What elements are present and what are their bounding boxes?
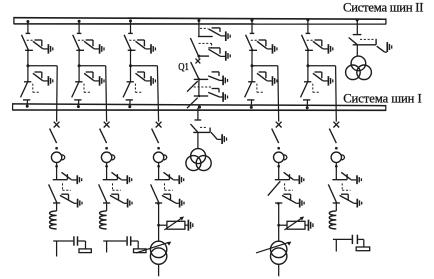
wire xyxy=(56,163,58,180)
node bay 1 bus II connection xyxy=(26,20,29,23)
earthing switch of bay 5 lower disconnector xyxy=(313,72,333,86)
wire xyxy=(278,163,280,180)
node bay 4 bus II connection xyxy=(251,19,254,22)
wire xyxy=(307,20,309,34)
wire xyxy=(158,163,160,180)
wire xyxy=(130,50,132,65)
earthing switch of bay 1 lower disconnector xyxy=(33,72,53,86)
disconnector of bus I voltage transformer xyxy=(191,120,227,144)
wire branch to feeder xyxy=(252,65,278,67)
circuit breaker Q1 xyxy=(191,59,201,79)
wire xyxy=(27,50,29,65)
disconnector bay 5 upper (bus II side) xyxy=(302,33,314,51)
coupling capacitor and earth of line feeder W1 xyxy=(53,236,91,252)
circuit breaker of line feeder W2 xyxy=(100,122,110,143)
line disconnector of transformer feeder T4 with two earthing switches xyxy=(268,172,304,207)
current transformer of line feeder W1 xyxy=(51,147,64,168)
disconnector bay 1 lower (bus I side) xyxy=(21,82,40,100)
svg-text:Q1: Q1 xyxy=(178,62,189,73)
wire branch to feeder xyxy=(131,65,158,67)
disconnector QS coupler bus II side xyxy=(190,37,212,58)
wire feeder drop transformer feeder T3 xyxy=(157,66,158,122)
wire feeder drop line feeder W1 xyxy=(56,66,59,122)
node bus coupler connection to bus II xyxy=(197,19,200,22)
earthing switch of bay 1 upper disconnector xyxy=(33,40,53,54)
wire xyxy=(356,45,358,56)
wire xyxy=(56,203,58,211)
earthing switch coupler top xyxy=(200,28,230,41)
node bay 1 bus I connection xyxy=(26,105,29,108)
disconnector bay 1 upper (bus II side) xyxy=(22,33,34,51)
wire xyxy=(198,56,200,59)
wire line continues xyxy=(56,241,58,257)
wire line continues xyxy=(335,239,337,251)
node bay 3 bus I connection xyxy=(128,105,131,108)
wire xyxy=(129,100,131,107)
wire branch to feeder xyxy=(308,65,336,67)
wire xyxy=(198,21,200,37)
node bay 4 bus I connection xyxy=(250,106,253,109)
transformer transformer feeder T4 with on-load tap changer xyxy=(256,241,291,264)
current transformer of transformer feeder T4 xyxy=(274,147,287,168)
wire xyxy=(158,225,160,241)
wire branch to feeder xyxy=(79,65,106,67)
wire xyxy=(26,100,28,106)
wire VT bus I drop xyxy=(197,108,199,120)
disconnector bay 2 lower (bus I side) xyxy=(72,82,91,100)
node bay 5 bus I connection xyxy=(306,106,309,109)
node coupler bus I connection xyxy=(198,106,201,109)
wire xyxy=(278,203,280,225)
wire xyxy=(335,163,337,180)
wire xyxy=(198,79,200,96)
earthing switch of bay 5 upper disconnector xyxy=(313,40,333,54)
wire xyxy=(251,50,253,65)
current transformer of line feeder W5 xyxy=(331,147,344,168)
HF line trap (reactor coil) of line feeder W2 xyxy=(100,211,107,229)
earthing switch coupler second xyxy=(208,48,230,61)
coupling capacitor and earth of line feeder W2 xyxy=(103,236,146,252)
node bay 2 bus II connection xyxy=(78,20,81,23)
coupling capacitor and earth of line feeder W5 xyxy=(333,235,370,251)
earthing switch of bay 4 upper disconnector xyxy=(257,40,277,54)
wire feeder drop line feeder W2 xyxy=(105,66,108,122)
wire xyxy=(158,203,160,225)
wire xyxy=(106,163,108,180)
wire xyxy=(251,20,253,33)
circuit breaker of line feeder W1 xyxy=(50,122,60,143)
node bay 2 junction xyxy=(78,64,81,67)
wire xyxy=(197,132,199,148)
wire branch to feeder xyxy=(28,65,57,67)
wire feeder drop transformer feeder T4 xyxy=(277,66,280,122)
disconnector bay 5 lower (bus I side) xyxy=(301,82,320,100)
svg-text:Система шин II: Система шин II xyxy=(343,1,424,15)
circuit breaker of transformer feeder T4 xyxy=(272,122,282,143)
disconnector bay 3 lower (bus I side) xyxy=(123,82,142,100)
line disconnector of transformer feeder T3 with two earthing switches xyxy=(151,172,184,207)
wire xyxy=(356,20,358,35)
svg-text:Система шин I: Система шин I xyxy=(343,92,422,106)
HF line trap (reactor coil) of line feeder W1 xyxy=(50,211,57,229)
line disconnector of line feeder W2 with two earthing switches xyxy=(99,172,132,207)
wire xyxy=(27,66,29,82)
disconnector bay 3 upper (bus II side) xyxy=(124,33,136,51)
disconnector bay 4 upper (bus II side) xyxy=(246,33,258,51)
disconnector QS coupler bus I side xyxy=(187,78,213,108)
disconnector of bus II voltage transformer xyxy=(349,35,392,53)
current transformer of transformer feeder T3 xyxy=(153,147,166,168)
node bay 2 bus I connection xyxy=(77,105,80,108)
wire xyxy=(250,100,252,108)
node bay 4 junction xyxy=(251,64,254,67)
circuit breaker of transformer feeder T3 xyxy=(152,122,162,143)
node bay 5 junction xyxy=(306,64,309,67)
wire xyxy=(106,203,108,211)
node bay 3 bus II connection xyxy=(129,19,132,22)
wire xyxy=(78,50,80,65)
earthing switch of bay 3 lower disconnector xyxy=(136,72,156,86)
earthing switch of bay 2 lower disconnector xyxy=(84,72,104,86)
wire xyxy=(307,50,309,65)
earthing switch coupler fourth xyxy=(208,89,227,102)
node bay 5 bus II connection xyxy=(306,18,309,21)
wire feeder drop line feeder W5 xyxy=(335,66,338,122)
wire xyxy=(335,203,337,211)
wire xyxy=(306,100,308,108)
disconnector bay 2 upper (bus II side) xyxy=(73,33,85,51)
voltage transformer TV2 (bus II) xyxy=(346,56,372,79)
earthing switch of bay 2 upper disconnector xyxy=(84,40,104,54)
wire xyxy=(77,100,79,107)
surge arrester (varistor) of transformer feeder T3 xyxy=(157,217,193,231)
transformer transformer feeder T3 with on-load tap changer xyxy=(136,241,171,264)
disconnector bay 4 lower (bus I side) xyxy=(245,82,264,100)
node bay 3 junction xyxy=(129,64,132,67)
wire line continues xyxy=(106,241,108,253)
wire xyxy=(307,66,309,82)
line disconnector of line feeder W5 with two earthing switches xyxy=(328,172,361,207)
wire xyxy=(78,66,80,82)
earthing switch of bay 4 lower disconnector xyxy=(257,72,277,86)
node VT bus II connection xyxy=(356,19,359,22)
HF line trap (reactor coil) of line feeder W5 xyxy=(329,211,336,229)
line disconnector of line feeder W1 with two earthing switches xyxy=(49,172,82,207)
wire xyxy=(130,66,132,82)
earthing switch of bay 3 upper disconnector xyxy=(136,40,156,54)
surge arrester (varistor) of transformer feeder T4 xyxy=(277,217,313,231)
node bay 1 junction xyxy=(26,64,29,67)
wire xyxy=(130,21,132,34)
wire xyxy=(27,22,29,34)
busbar system I xyxy=(13,104,386,106)
earthing switch coupler third xyxy=(208,72,227,85)
wire xyxy=(78,21,80,33)
wire xyxy=(251,66,253,82)
circuit breaker of line feeder W5 xyxy=(329,122,339,143)
current transformer of line feeder W2 xyxy=(101,147,114,168)
wire xyxy=(278,225,280,241)
voltage transformer TV1 (bus I) xyxy=(186,149,211,171)
busbar system II xyxy=(14,18,386,20)
wire xyxy=(158,264,160,276)
wire xyxy=(278,264,280,276)
